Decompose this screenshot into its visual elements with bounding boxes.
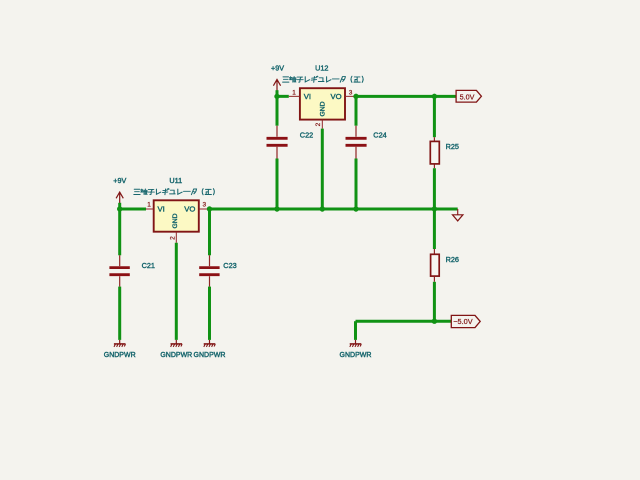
wire +9V to U12 pin 1 xyxy=(277,95,289,98)
svg-text:GNDPWR: GNDPWR xyxy=(340,352,372,359)
regulator U11 body xyxy=(154,200,199,231)
wire U11 GND down xyxy=(175,243,178,340)
svg-text:GND: GND xyxy=(172,213,179,228)
wire R26 to -5V rail xyxy=(433,282,436,321)
svg-text:3: 3 xyxy=(349,90,353,97)
capacitor C21 xyxy=(109,255,155,286)
junction +9V / U11 pin1 / C21 xyxy=(117,206,122,211)
svg-text:C21: C21 xyxy=(142,261,155,270)
svg-text:C23: C23 xyxy=(223,261,236,270)
svg-text:2: 2 xyxy=(170,236,177,240)
svg-text:GNDPWR: GNDPWR xyxy=(194,352,226,359)
svg-text:C24: C24 xyxy=(373,131,386,140)
wire down to C23 xyxy=(208,209,211,255)
wire C21 bottom to GNDPWR xyxy=(118,287,121,340)
svg-text:+9V: +9V xyxy=(271,63,284,72)
power symbol GNDPWR (U11 GND) xyxy=(160,340,192,359)
svg-text:R25: R25 xyxy=(446,142,459,151)
svg-text:GNDPWR: GNDPWR xyxy=(160,352,192,359)
wire U12 GND to bus xyxy=(321,129,324,209)
junction R25/bus xyxy=(432,206,437,211)
wire down to C24 xyxy=(355,96,358,125)
power symbol +9V (U11) xyxy=(113,176,126,203)
resistor R26 xyxy=(431,249,459,282)
junction 5V / R25 xyxy=(432,94,437,99)
svg-text:GND: GND xyxy=(319,101,326,116)
regulator U12 body xyxy=(300,88,345,119)
wire R25 to R26 xyxy=(433,168,436,249)
junction U12 pin3 / C24 xyxy=(353,94,358,99)
junction R26 / -5V rail xyxy=(432,319,437,324)
wire +9V down to C22 xyxy=(276,90,279,126)
power symbol GNDPWR (C21) xyxy=(104,340,136,359)
global label -5.0V xyxy=(451,315,480,327)
svg-text:R26: R26 xyxy=(446,255,459,264)
svg-text:VO: VO xyxy=(184,205,195,214)
svg-text:1: 1 xyxy=(147,201,151,208)
global label 5.0V xyxy=(456,90,481,102)
wire +9V down to C21 xyxy=(118,203,121,256)
wire down to R25 xyxy=(433,96,436,137)
wire C24 bottom to bus xyxy=(355,159,358,210)
ground symbol xyxy=(453,209,463,221)
wire C23 bottom to GNDPWR xyxy=(208,287,211,340)
U11 pin 3 xyxy=(199,201,210,209)
svg-text:C22: C22 xyxy=(300,131,313,140)
power symbol +9V (U12) xyxy=(271,63,284,90)
svg-text:VI: VI xyxy=(158,205,165,214)
svg-text:VI: VI xyxy=(304,92,311,101)
wire +9V to U11 pin1 xyxy=(120,208,146,211)
junction U11 pin3 / C23 / bus xyxy=(207,206,212,211)
resistor R25 xyxy=(430,137,459,168)
U12 pin 3 xyxy=(345,90,356,97)
capacitor C24 xyxy=(346,126,387,159)
U12 pin 2 xyxy=(315,120,323,129)
U11 pin 1 xyxy=(146,201,154,209)
svg-text:VO: VO xyxy=(330,92,341,101)
svg-text:2: 2 xyxy=(315,122,322,126)
svg-text:3: 3 xyxy=(202,201,206,208)
wire -5V rail xyxy=(356,320,452,323)
svg-text:+9V: +9V xyxy=(113,176,126,185)
svg-text:5.0V: 5.0V xyxy=(460,93,475,102)
capacitor C23 xyxy=(199,255,236,286)
junction U12 GND/bus xyxy=(320,206,325,211)
junction at +9V / U12 pin1 xyxy=(274,94,279,99)
junction C24/bus xyxy=(353,206,358,211)
svg-text:1: 1 xyxy=(292,90,296,97)
svg-text:U12: U12 xyxy=(315,63,328,72)
power symbol GNDPWR (C23) xyxy=(194,340,226,359)
wire U12 pin3 to 5.0V label xyxy=(356,95,456,98)
svg-text:U11: U11 xyxy=(169,176,182,185)
junction C22/bus xyxy=(274,206,279,211)
value 三端子レギュレータ(正) for U12 xyxy=(283,76,364,82)
wire C22 bottom to bus xyxy=(276,159,279,210)
svg-text:GNDPWR: GNDPWR xyxy=(104,352,136,359)
U12 pin 1 xyxy=(289,90,300,97)
capacitor C22 xyxy=(267,126,314,159)
U11 pin 2 xyxy=(170,232,177,243)
power symbol GNDPWR (right) xyxy=(340,340,372,359)
wire -5V rail down to GNDPWR xyxy=(354,321,357,340)
svg-text:−5.0V: −5.0V xyxy=(453,317,472,326)
value 三端子レギュレータ(正) for U11 xyxy=(134,189,215,195)
wire mid bus xyxy=(210,208,458,211)
